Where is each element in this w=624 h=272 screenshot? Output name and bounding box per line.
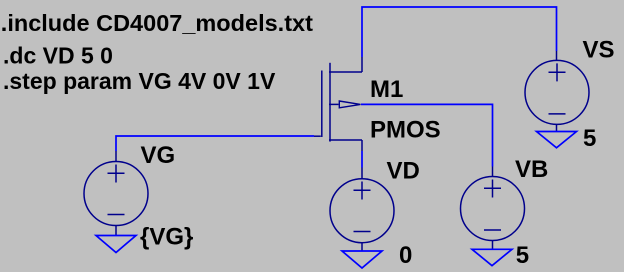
gate lead xyxy=(314,135,321,137)
svg-text:.dc VD 5 0: .dc VD 5 0 xyxy=(3,43,113,69)
voltage source VS xyxy=(525,51,589,132)
source stub xyxy=(329,57,362,72)
ground below VB xyxy=(472,249,512,265)
wire top: M1 source to VS top xyxy=(362,7,557,57)
gate plate xyxy=(321,71,323,138)
ground below VD xyxy=(342,251,382,268)
wire gate: VG top to M1 gate xyxy=(116,136,314,151)
ground below VS xyxy=(537,132,577,148)
svg-text:VD: VD xyxy=(387,158,420,185)
svg-text:5: 5 xyxy=(583,125,596,152)
svg-text:PMOS: PMOS xyxy=(370,117,441,144)
svg-text:{VG}: {VG} xyxy=(140,224,193,251)
svg-text:VG: VG xyxy=(141,142,176,169)
bulk arrow xyxy=(339,101,360,108)
svg-text:5: 5 xyxy=(516,242,529,269)
drain stub xyxy=(329,140,362,151)
svg-text:.step param VG 4V 0V 1V: .step param VG 4V 0V 1V xyxy=(3,68,276,94)
transistor M1 (PMOS) xyxy=(314,57,362,151)
bulk lead xyxy=(329,103,339,105)
svg-text:.include CD4007_models.txt: .include CD4007_models.txt xyxy=(1,10,313,36)
voltage source VB xyxy=(461,167,525,250)
ground below VG xyxy=(96,236,136,253)
svg-text:0: 0 xyxy=(399,242,412,269)
wire drain: M1 drain to VD top xyxy=(361,151,363,168)
svg-text:VB: VB xyxy=(515,156,548,183)
svg-text:M1: M1 xyxy=(370,76,403,103)
voltage source VG xyxy=(84,151,148,236)
svg-text:VS: VS xyxy=(583,36,615,63)
wire bulk: M1 bulk to VB top xyxy=(361,104,493,166)
voltage source VD xyxy=(330,168,394,252)
channel xyxy=(329,63,331,142)
